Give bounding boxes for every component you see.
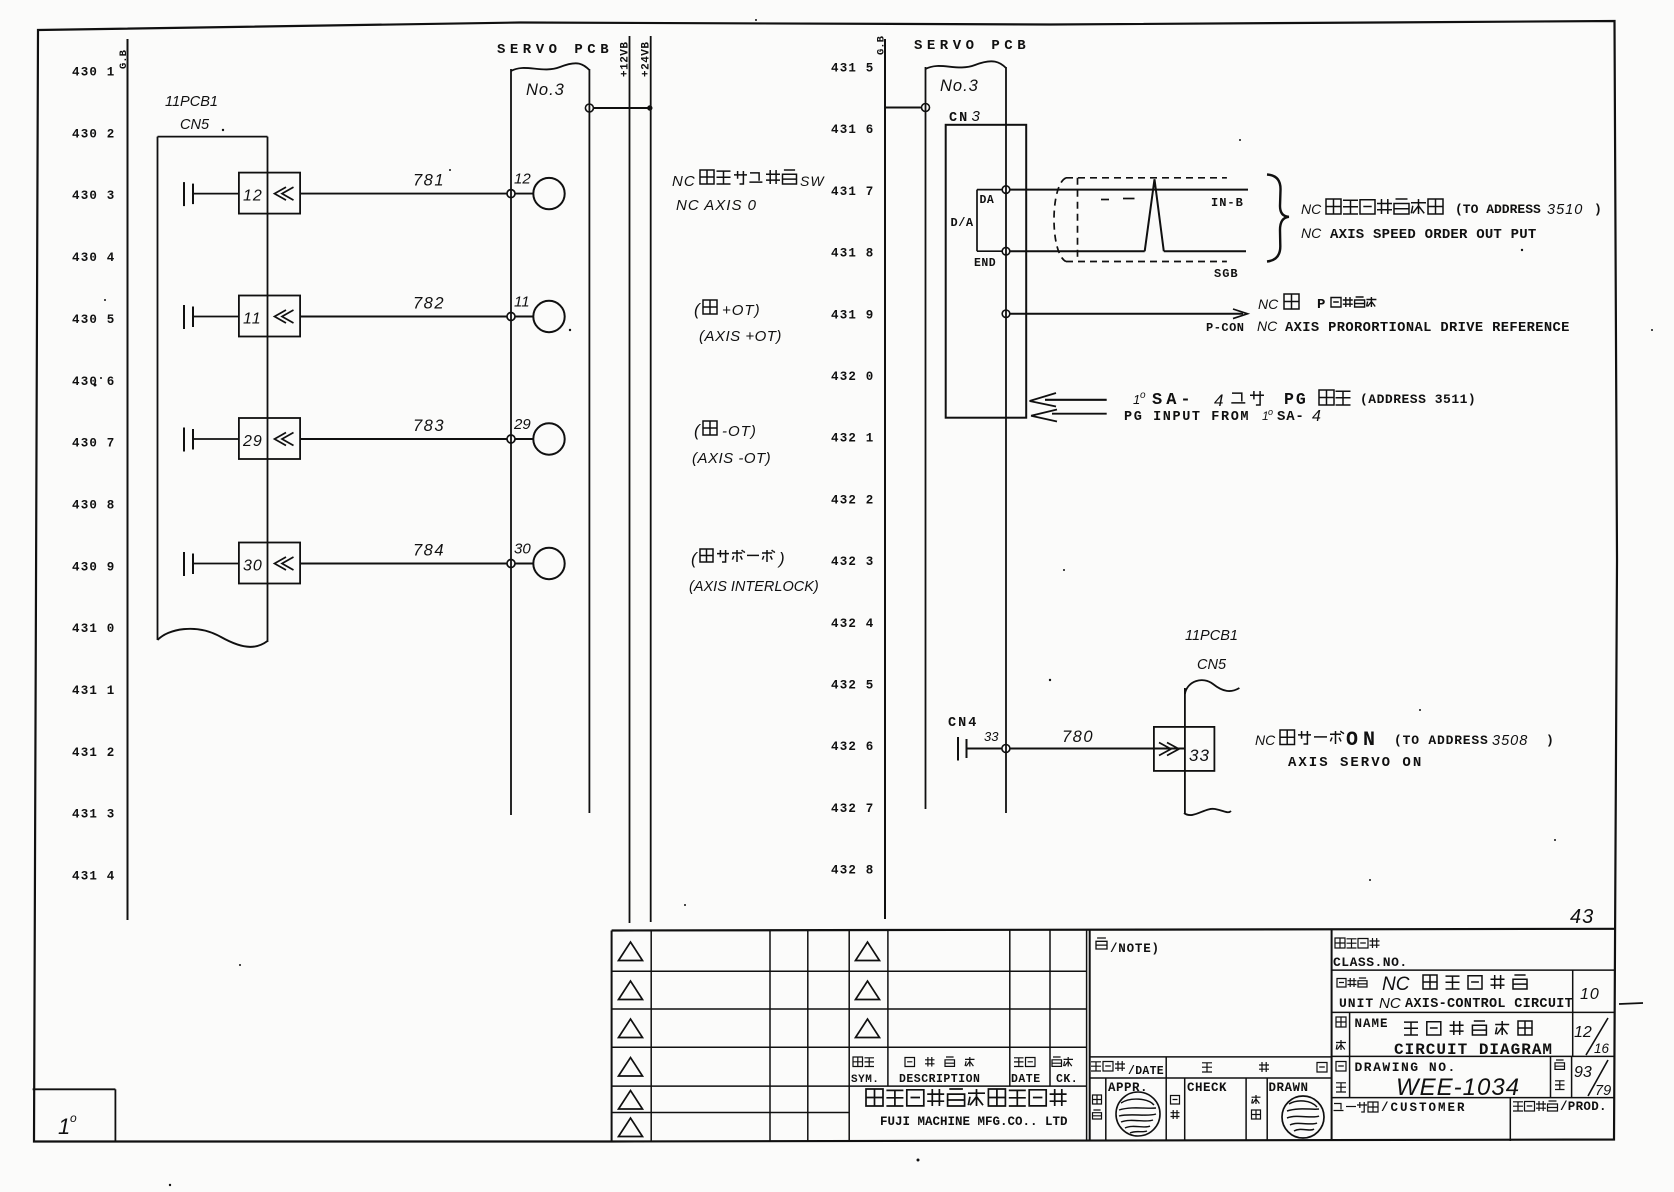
terminal circle 11 (servo pcb) — [514, 294, 565, 333]
svg-text:DRAWN: DRAWN — [1269, 1081, 1309, 1095]
svg-text:4: 4 — [1214, 391, 1223, 410]
terminal circle 12 (servo pcb) — [514, 171, 565, 210]
svg-text:(TO ADDRESS: (TO ADDRESS — [1394, 733, 1489, 748]
svg-text:NC: NC — [1255, 732, 1276, 748]
svg-text:432 6: 432 6 — [831, 740, 875, 754]
svg-text:432 5: 432 5 — [831, 679, 875, 693]
wire P-CON with arrow — [1010, 309, 1248, 335]
svg-text:(AXIS +OT): (AXIS +OT) — [699, 328, 782, 345]
brace speed order — [1267, 175, 1289, 262]
revision triangles column 1 — [619, 942, 643, 1137]
+24VB power rail — [641, 36, 653, 922]
note and approval section grid — [1090, 931, 1333, 1142]
note NC axis speed order jp — [1301, 199, 1602, 218]
svg-text:AXIS PRORORTIONAL DRIVE REFERE: AXIS PRORORTIONAL DRIVE REFERENCE — [1285, 321, 1570, 336]
capacitor contact pin 33 (CN4) — [958, 729, 1002, 761]
connector CN3 box — [946, 125, 1026, 418]
+12VB power rail — [620, 36, 632, 923]
svg-text:431 0: 431 0 — [72, 622, 116, 636]
svg-text:CN5: CN5 — [180, 117, 210, 133]
svg-text:o: o — [1268, 407, 1273, 417]
drawing no row — [1336, 1056, 1520, 1101]
svg-text:784: 784 — [413, 542, 445, 560]
label DRAWN — [1252, 1081, 1309, 1119]
label SERVO PCB (right) — [914, 38, 1030, 54]
junction node 784 on servo pcb — [507, 560, 533, 568]
svg-text:SGB: SGB — [1214, 267, 1239, 281]
svg-text:NC: NC — [1382, 974, 1410, 995]
wire servo pcb to +24VB — [585, 104, 652, 112]
svg-text:432 0: 432 0 — [831, 370, 875, 384]
right G.B bus wire — [884, 39, 886, 919]
connector pin box 33 with arrow — [1154, 727, 1215, 771]
svg-text:780: 780 — [1062, 728, 1094, 746]
svg-text:PG: PG — [1284, 390, 1308, 409]
svg-text:432 2: 432 2 — [831, 493, 875, 507]
label No.3 (left) — [526, 81, 565, 99]
unit row — [1337, 974, 1573, 1012]
svg-text:30: 30 — [243, 558, 263, 575]
svg-text:430 7: 430 7 — [72, 437, 116, 451]
svg-text:DRAWING NO.: DRAWING NO. — [1355, 1060, 1457, 1075]
svg-text:NC: NC — [1258, 296, 1279, 312]
svg-text:432 7: 432 7 — [831, 802, 875, 816]
svg-text:431 2: 431 2 — [72, 746, 116, 760]
drawn stamp — [1282, 1096, 1324, 1138]
svg-text:o: o — [70, 1111, 77, 1125]
label CN5 (right) — [1197, 657, 1227, 673]
svg-text:NC: NC — [1257, 318, 1278, 334]
note (axis interlock) jp — [691, 549, 785, 568]
wire CN5 stub (right) — [1184, 680, 1239, 815]
svg-text:+OT): +OT) — [722, 302, 761, 319]
svg-text:FUJI MACHINE MFG.CO.. LTD: FUJI MACHINE MFG.CO.. LTD — [880, 1115, 1068, 1129]
svg-text:430 4: 430 4 — [72, 251, 116, 265]
svg-text:DA: DA — [980, 194, 995, 207]
label 11PCB1 (right) — [1185, 628, 1238, 644]
svg-text:33: 33 — [1189, 746, 1210, 765]
revision table grid — [612, 929, 1614, 1141]
svg-text:781: 781 — [413, 172, 445, 190]
company name Fuji kanji — [866, 1089, 1067, 1106]
svg-text:12: 12 — [514, 171, 531, 188]
PG input arrow upper — [1030, 393, 1107, 407]
revision header DESCRIPTION — [899, 1057, 980, 1086]
svg-text:431 1: 431 1 — [72, 684, 116, 698]
svg-text:NC: NC — [1301, 225, 1322, 241]
connector 11PCB1 CN5 outline (left) — [158, 137, 268, 647]
terminal circle 30 (servo pcb) — [514, 541, 565, 580]
svg-text:D/A: D/A — [951, 216, 974, 230]
revision triangles column 2 — [856, 942, 880, 1038]
note AXIS SERVO ON — [1288, 755, 1423, 771]
svg-text:P-CON: P-CON — [1206, 321, 1245, 335]
connector pin box 11 with arrow — [239, 296, 300, 337]
svg-text:No.3: No.3 — [526, 81, 565, 99]
svg-text:33: 33 — [984, 729, 999, 744]
terminal P-CON — [1002, 310, 1010, 318]
svg-text:AXIS-CONTROL CIRCUIT: AXIS-CONTROL CIRCUIT — [1405, 997, 1573, 1012]
label SGB — [1214, 267, 1239, 281]
label SERVO PCB (left) — [497, 42, 613, 58]
left line-number column 4301-4314 — [72, 66, 116, 884]
svg-text:(AXIS INTERLOCK): (AXIS INTERLOCK) — [689, 579, 819, 595]
svg-text:/CUSTOMER: /CUSTOMER — [1381, 1101, 1467, 1115]
svg-text:): ) — [777, 549, 785, 568]
label No.3 (right) — [940, 77, 979, 95]
junction node 781 on servo pcb — [507, 190, 533, 198]
svg-text:(AXIS -OT): (AXIS -OT) — [692, 450, 771, 467]
svg-text:11PCB1: 11PCB1 — [165, 94, 218, 110]
svg-text:1: 1 — [58, 1114, 70, 1139]
polarity dashes — [1101, 199, 1135, 200]
signal pulse waveform — [1145, 179, 1164, 251]
svg-text:UNIT: UNIT — [1339, 996, 1374, 1011]
svg-text:430 5: 430 5 — [72, 313, 116, 327]
svg-text:NAME: NAME — [1355, 1017, 1389, 1031]
svg-text:SERVO PCB: SERVO PCB — [914, 38, 1030, 54]
junction node 783 on servo pcb — [507, 435, 533, 443]
svg-text:CN4: CN4 — [948, 716, 978, 731]
svg-text:END: END — [974, 257, 996, 270]
svg-text:431 6: 431 6 — [831, 123, 875, 137]
svg-text:SA-: SA- — [1277, 409, 1305, 425]
svg-text:NC: NC — [1301, 201, 1322, 217]
note NC AXIS SPEED ORDER OUT PUT — [1301, 225, 1536, 243]
svg-text:SA-: SA- — [1152, 391, 1195, 410]
capacitor contact pin 11 (CN5) — [184, 305, 239, 329]
terminal END — [1002, 247, 1010, 255]
note NC AXIS PROPORTIONAL DRIVE REFERENCE — [1257, 318, 1570, 336]
note (AXIS -OT) — [692, 450, 771, 467]
name page cell — [1573, 1012, 1610, 1056]
revision header DATE — [1011, 1058, 1041, 1087]
junction node 780 — [1002, 745, 1010, 753]
approval stamp — [1116, 1092, 1160, 1136]
note (axis +OT) jp — [694, 300, 761, 319]
svg-text:93: 93 — [1574, 1064, 1592, 1081]
right line-number column 4315-4328 — [831, 62, 875, 878]
D/A converter bracket — [951, 190, 1003, 270]
svg-text:29: 29 — [513, 416, 531, 433]
svg-text:432 1: 432 1 — [831, 432, 875, 446]
svg-text:/PROD.: /PROD. — [1560, 1100, 1607, 1114]
svg-text:430 6: 430 6 — [72, 375, 116, 389]
connector pin box 12 with arrow — [239, 173, 300, 214]
svg-text:/NOTE): /NOTE) — [1110, 942, 1160, 956]
note NC AXIS 0 — [676, 197, 757, 214]
svg-text:AXIS SPEED ORDER OUT PUT: AXIS SPEED ORDER OUT PUT — [1330, 227, 1536, 243]
svg-text:3: 3 — [972, 108, 981, 125]
svg-text:12: 12 — [1574, 1024, 1592, 1041]
left G.B bus wire — [127, 39, 129, 920]
wire DA to IN-B — [1010, 189, 1248, 191]
svg-text:431 3: 431 3 — [72, 808, 116, 822]
label CN5 (left) — [180, 117, 210, 133]
note (AXIS +OT) — [699, 328, 782, 345]
svg-text:CIRCUIT DIAGRAM: CIRCUIT DIAGRAM — [1394, 1041, 1553, 1059]
note NC axis P drive jp — [1258, 294, 1376, 313]
svg-text:NC AXIS 0: NC AXIS 0 — [676, 197, 757, 214]
svg-text:30: 30 — [514, 541, 531, 558]
svg-text:CN: CN — [949, 111, 969, 126]
svg-text:16: 16 — [1594, 1041, 1610, 1056]
page number box — [33, 1089, 116, 1141]
wire 784 — [300, 542, 507, 564]
revision header SYM — [851, 1057, 879, 1086]
svg-text:-OT): -OT) — [722, 423, 757, 440]
svg-text:AXIS SERVO ON: AXIS SERVO ON — [1288, 755, 1423, 771]
note (axis -OT) jp — [694, 421, 757, 440]
svg-text:IN-B: IN-B — [1211, 196, 1244, 210]
svg-text:11PCB1: 11PCB1 — [1185, 628, 1238, 644]
svg-text:WEE-1034: WEE-1034 — [1396, 1074, 1520, 1101]
svg-text:782: 782 — [413, 295, 445, 313]
page number cell — [1551, 1056, 1612, 1099]
svg-text:12: 12 — [243, 188, 263, 205]
svg-text:/DATE: /DATE — [1128, 1065, 1164, 1078]
svg-text:No.3: No.3 — [940, 77, 979, 95]
svg-text:431 4: 431 4 — [72, 870, 116, 884]
svg-text:430 3: 430 3 — [72, 189, 116, 203]
label IN-B — [1211, 196, 1244, 210]
svg-text:11: 11 — [243, 311, 262, 328]
wire 780 — [1010, 728, 1154, 749]
connector pin box 29 with arrow — [239, 418, 300, 459]
svg-text:DATE: DATE — [1011, 1073, 1041, 1086]
svg-text:CN5: CN5 — [1197, 657, 1227, 673]
svg-text:11: 11 — [514, 294, 530, 311]
left G.B bus label — [118, 49, 130, 69]
svg-text:(TO ADDRESS: (TO ADDRESS — [1455, 202, 1541, 217]
svg-text:79: 79 — [1595, 1083, 1611, 1099]
servo pcb box (left) — [511, 63, 589, 815]
svg-text:SW: SW — [800, 173, 825, 189]
note NC axis zero set SW — [672, 170, 825, 190]
svg-text:(ADDRESS 3511): (ADDRESS 3511) — [1360, 392, 1476, 407]
svg-text:432 8: 432 8 — [831, 864, 875, 878]
svg-text:430 2: 430 2 — [72, 127, 116, 141]
company name FUJI MACHINE MFG — [880, 1115, 1068, 1129]
note NC axis servo ON jp — [1255, 729, 1554, 752]
svg-text:432 4: 432 4 — [831, 617, 875, 631]
junction node 782 on servo pcb — [507, 313, 533, 321]
svg-text:4: 4 — [1312, 408, 1321, 425]
svg-text:P: P — [1317, 297, 1325, 313]
svg-text:o: o — [1140, 390, 1146, 401]
label CN4 — [948, 716, 978, 731]
note (AXIS INTERLOCK) — [689, 579, 819, 595]
title block right grid — [1332, 929, 1614, 1141]
svg-text:431 9: 431 9 — [831, 308, 875, 322]
svg-text:43: 43 — [1570, 906, 1594, 928]
wire G.B to servo pcb (right) — [885, 104, 930, 112]
svg-text:3510: 3510 — [1547, 202, 1583, 218]
svg-text:ON: ON — [1346, 729, 1380, 752]
capacitor contact pin 12 (CN5) — [184, 182, 239, 206]
svg-text:430 9: 430 9 — [72, 560, 116, 574]
label NOTE — [1096, 938, 1160, 956]
label DATE row — [1091, 1061, 1327, 1078]
wire 781 — [300, 172, 507, 194]
svg-text:CK.: CK. — [1056, 1073, 1078, 1086]
svg-text:431 7: 431 7 — [831, 185, 875, 199]
unit page cell — [1573, 970, 1643, 1012]
customer row — [1334, 1098, 1607, 1141]
svg-text:SERVO PCB: SERVO PCB — [497, 42, 613, 58]
svg-text:CHECK: CHECK — [1187, 1081, 1227, 1095]
shielded cable dashed outline — [1054, 178, 1227, 262]
svg-text:): ) — [1594, 202, 1602, 217]
name row — [1336, 1012, 1553, 1059]
svg-text:430 8: 430 8 — [72, 498, 116, 512]
PG input arrow lower — [1031, 410, 1107, 422]
svg-text:SYM.: SYM. — [851, 1074, 879, 1086]
note PG INPUT FROM — [1124, 407, 1321, 425]
svg-text:): ) — [1546, 733, 1554, 748]
capacitor contact pin 30 (CN5) — [184, 552, 239, 576]
svg-text:NC: NC — [672, 173, 696, 190]
svg-text:432 3: 432 3 — [831, 555, 875, 569]
label class no — [1333, 938, 1408, 970]
connector pin box 30 with arrow — [239, 543, 300, 584]
svg-text:430 1: 430 1 — [72, 66, 116, 80]
svg-text:NC: NC — [1379, 995, 1401, 1012]
svg-text:CLASS.NO.: CLASS.NO. — [1333, 955, 1408, 970]
note PG input jp — [1133, 390, 1476, 410]
label APPR — [1093, 1081, 1149, 1119]
svg-text:431 8: 431 8 — [831, 247, 875, 261]
label CN3 — [949, 108, 981, 126]
right G.B bus label — [876, 35, 888, 55]
label 11PCB1 (left) — [165, 94, 218, 110]
wire END to SGB — [1010, 250, 1246, 252]
svg-text:10: 10 — [1580, 986, 1600, 1003]
svg-text:DESCRIPTION: DESCRIPTION — [899, 1073, 980, 1086]
wire 782 — [300, 295, 507, 317]
svg-text:431 5: 431 5 — [831, 62, 875, 76]
svg-text:3508: 3508 — [1492, 733, 1528, 749]
wire 783 — [300, 417, 507, 439]
handwritten page mark 43 — [1570, 906, 1594, 928]
svg-text:PG INPUT FROM: PG INPUT FROM — [1124, 410, 1250, 425]
svg-text:29: 29 — [242, 433, 263, 450]
terminal DA — [1002, 186, 1010, 194]
label CHECK — [1171, 1081, 1228, 1119]
revision header CK — [1052, 1057, 1078, 1086]
capacitor contact pin 29 (CN5) — [184, 428, 239, 452]
terminal circle 29 (servo pcb) — [513, 416, 565, 455]
svg-text:783: 783 — [413, 417, 445, 435]
servo pcb box (right) — [926, 61, 1007, 813]
